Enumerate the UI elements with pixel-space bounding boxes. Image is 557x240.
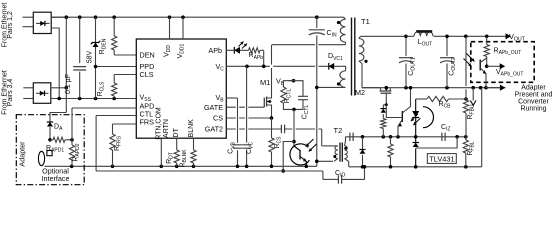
junction top rail x80	[78, 15, 82, 19]
transformer T2 primary	[335, 146, 338, 159]
junction top rail x114	[112, 15, 116, 19]
wire VB stub	[289, 80, 294, 82]
wire secondary return top	[362, 87, 506, 89]
resistor RCS	[271, 118, 273, 138]
junction sec rail diode	[361, 165, 365, 169]
svg-text:Adapter: Adapter	[521, 84, 546, 91]
junction sec rail RFBL	[464, 165, 468, 169]
T1 primary phase dot	[337, 21, 340, 24]
wire APb	[226, 49, 232, 51]
LED arrows	[239, 42, 244, 47]
resistor RFBU	[465, 36, 467, 100]
label TLV431	[427, 154, 456, 164]
junction top rail CIN	[315, 15, 319, 19]
dashed box adapter present	[471, 42, 534, 83]
resistor RCB	[416, 98, 427, 100]
svg-text:GAT2: GAT2	[205, 125, 223, 134]
resistor RCLS	[113, 75, 115, 84]
optocoupler U2 transistor	[290, 144, 309, 165]
junction VOUT COUT1	[404, 35, 408, 39]
junction rail RTN	[160, 165, 164, 169]
svg-text:DT: DT	[173, 127, 180, 137]
svg-text:APb: APb	[208, 46, 222, 55]
resistor RCTL	[283, 81, 293, 87]
T1 core	[352, 18, 355, 96]
junction rail RDT	[175, 165, 179, 169]
capacitor 0.1uF	[79, 17, 81, 63]
diode T2 clamp	[362, 137, 364, 150]
transformer T1 aux winding	[340, 71, 346, 88]
junction VC CVC	[245, 65, 249, 69]
svg-text:GATE: GATE	[204, 103, 223, 112]
junction VSS x114	[112, 97, 116, 101]
capacitor T2 series	[350, 133, 353, 141]
TLV431 U3	[415, 137, 417, 143]
svg-text:Interface: Interface	[42, 174, 70, 183]
wire GATE	[226, 106, 264, 108]
wire M1 drain	[271, 45, 273, 96]
junction CIZ right	[455, 135, 459, 139]
wire VDD leg	[169, 17, 171, 39]
svg-text:CLS: CLS	[140, 70, 154, 79]
svg-text:FRS: FRS	[140, 117, 155, 126]
transistor M2	[362, 87, 381, 89]
svg-text:58V: 58V	[87, 50, 94, 63]
junction rail RBLNK	[192, 165, 196, 169]
adapter dashed box	[16, 115, 84, 185]
wire bridge1 input bottom	[23, 26, 34, 28]
junction sec rail TLV	[414, 165, 418, 169]
junction A gate diode	[382, 135, 386, 139]
junction lower rail chain	[281, 169, 285, 173]
resistor RFBL	[463, 140, 468, 153]
junction VC RAPb	[262, 65, 266, 69]
wire RTN leg	[160, 138, 162, 166]
controller IC U1	[136, 39, 226, 138]
junction VOUT RFBU	[464, 35, 468, 39]
svg-text:TLV431: TLV431	[429, 154, 454, 163]
wire T2 primary top	[285, 128, 322, 130]
wire CIZ to TLV cathode	[416, 137, 457, 148]
junction A divider	[464, 135, 468, 139]
junction Q1 collector rail	[409, 86, 413, 90]
wire top VDD rail	[51, 16, 343, 18]
svg-text:Adapter: Adapter	[18, 141, 27, 167]
resistor RAPD2	[71, 140, 73, 145]
resistor RBLNK	[193, 138, 195, 150]
transformer T1 primary	[340, 19, 345, 42]
T2 core	[340, 143, 342, 162]
resistor RFRS	[110, 134, 115, 150]
svg-text:Pairs 3,4: Pairs 3,4	[7, 79, 14, 107]
junction VOUT RAPbOUT	[485, 35, 489, 39]
svg-text:T1: T1	[361, 17, 370, 26]
junction VSS x59	[57, 97, 61, 101]
wire CTL chain node	[292, 108, 296, 112]
wire APD	[72, 107, 136, 109]
junction rail COUT1	[404, 86, 408, 90]
wire T1 primary bottom to M1 drain	[272, 44, 346, 46]
capacitor CIO	[322, 171, 324, 179]
wire VB pin	[226, 97, 237, 99]
junction VOUT COUT2	[445, 35, 449, 39]
junction VB RCTL	[292, 79, 296, 83]
capacitor CIZ	[442, 133, 445, 141]
resistor RDT	[176, 138, 178, 150]
wire CS	[226, 117, 271, 119]
junction rail RFRS	[111, 165, 115, 169]
junction sec rail CIO	[363, 165, 367, 169]
resistor RDEN	[113, 17, 115, 36]
junction PPD zener	[94, 65, 98, 69]
junction A TLV	[414, 135, 418, 139]
junction A RG	[389, 135, 393, 139]
junction VSS x95	[94, 97, 98, 101]
svg-text:M2: M2	[355, 88, 365, 97]
wire VOUT rail	[361, 35, 407, 37]
svg-text:M1: M1	[260, 78, 270, 87]
connector plug	[38, 151, 44, 165]
U2 LED arrows	[411, 114, 418, 121]
U2 light arrows	[306, 139, 314, 147]
junction return emitter	[484, 86, 488, 90]
wire CTL leg and lower rail	[95, 116, 97, 172]
zener diode 58V	[95, 17, 97, 42]
wire gate node A	[346, 136, 466, 138]
arrow VAPbOUT	[487, 65, 501, 67]
junction rail RCS	[270, 165, 274, 169]
wire BR2 + output	[51, 87, 67, 89]
resistor RAPb	[249, 48, 261, 53]
junction return x473	[471, 86, 475, 90]
svg-text:ARTN: ARTN	[163, 119, 170, 138]
svg-text:Converter: Converter	[518, 98, 549, 105]
junction rail CVB	[236, 165, 240, 169]
junction A diode leg	[361, 135, 365, 139]
junction CS M1 source	[270, 116, 274, 120]
junction sec rail RG	[389, 165, 393, 169]
wire M2 gate	[385, 93, 387, 105]
junction RAPD1 RAPD2	[70, 138, 74, 142]
svg-text:Running: Running	[520, 105, 546, 112]
junction gate node	[385, 103, 388, 106]
svg-text:Pairs 1,2: Pairs 1,2	[7, 11, 14, 39]
diode M2 gate	[382, 105, 384, 109]
bridge rectifier BR2	[33, 83, 51, 104]
inductor LOUT	[406, 35, 414, 37]
junction M2 body	[385, 86, 389, 90]
LED indicator	[240, 49, 249, 51]
wire BR1 + output to top rail	[51, 16, 66, 18]
wire VSS rail	[51, 98, 137, 100]
wire adapter + column	[65, 17, 67, 112]
T1 aux phase dot	[337, 82, 340, 85]
Q2 light arrows	[467, 54, 475, 62]
junction A emitter	[396, 135, 400, 139]
wire BR1 - output step	[51, 28, 59, 99]
junction top rail x95	[94, 15, 98, 19]
junction CIN aux	[315, 86, 319, 90]
T2 phase dots	[333, 155, 336, 158]
junction VAPbOUT node	[485, 65, 489, 69]
junction DA RAPD1	[48, 138, 52, 142]
wire PPD	[96, 66, 137, 68]
wire bridge2 input bottom	[23, 98, 33, 100]
junction BR2+ to adapter column	[65, 86, 69, 90]
junction CIN T2 return	[315, 160, 319, 164]
optocoupler U2 LED	[423, 107, 434, 128]
diode inside BR2	[36, 92, 49, 94]
wire chain to lower rail	[283, 142, 294, 172]
capacitor T2 coupling	[281, 125, 284, 133]
wire FRS	[113, 123, 137, 125]
arrow return	[500, 85, 506, 91]
junction rail opto emitter	[305, 165, 309, 169]
wire VDD1 leg	[182, 17, 184, 39]
transformer T1 secondary	[359, 39, 364, 62]
resistor RG	[390, 137, 392, 144]
transformer T2 secondary	[345, 146, 348, 159]
transistor Q1	[401, 111, 403, 122]
junction top rail x66	[65, 15, 69, 19]
resistor RAPD1	[50, 139, 53, 141]
arrow VOUT	[506, 33, 512, 39]
junction rail COUT2	[445, 86, 449, 90]
capacitor CIN	[316, 17, 318, 28]
wire bridge2 input top	[23, 87, 33, 89]
junction rail RAPD2	[70, 165, 74, 169]
wire secondary bottom rail	[349, 166, 482, 168]
svg-text:T2: T2	[334, 126, 343, 135]
wire CTL	[96, 115, 136, 117]
stub arrow down	[472, 88, 474, 101]
transistor M1	[263, 98, 265, 108]
junction RCB divider	[464, 97, 468, 101]
junction top rail VDD1 pin	[181, 15, 185, 19]
wire RTN rail	[45, 165, 317, 167]
wire CLS	[114, 74, 136, 76]
capacitor CVB	[233, 145, 242, 148]
wire DEN	[114, 54, 136, 56]
capacitor COUT2	[446, 36, 448, 56]
bridge rectifier BR1	[33, 12, 51, 33]
diode inside BR1	[36, 22, 50, 24]
svg-text:BLNK: BLNK	[188, 119, 195, 138]
capacitor CCTL	[294, 81, 304, 96]
wire VC	[226, 65, 346, 67]
capacitor CVC	[242, 145, 251, 148]
diode DVC1	[329, 63, 334, 70]
diode DA	[49, 119, 51, 122]
capacitor COUT1	[405, 36, 407, 56]
wire GAT2	[226, 128, 281, 130]
svg-text:Present and: Present and	[515, 91, 553, 98]
svg-text:DEN: DEN	[140, 51, 155, 60]
resistor RAPbOUT	[486, 36, 488, 44]
junction top rail VDD pin	[168, 15, 172, 19]
T1 secondary phase dot	[364, 60, 367, 63]
svg-text:RTN,COM: RTN,COM	[155, 107, 162, 140]
svg-text:0.1 µF: 0.1 µF	[65, 74, 72, 94]
junction return RFBL riser	[479, 86, 483, 90]
transistor Q2 opto output	[479, 60, 481, 71]
junction VSS x80	[78, 97, 82, 101]
wire opto collector	[293, 109, 295, 146]
wire bridge1 input top	[23, 16, 34, 18]
wire CVC leg	[246, 66, 248, 142]
junction rail CVC	[245, 165, 249, 169]
svg-text:CS: CS	[213, 114, 223, 123]
wire RAPb to VC	[263, 50, 265, 66]
